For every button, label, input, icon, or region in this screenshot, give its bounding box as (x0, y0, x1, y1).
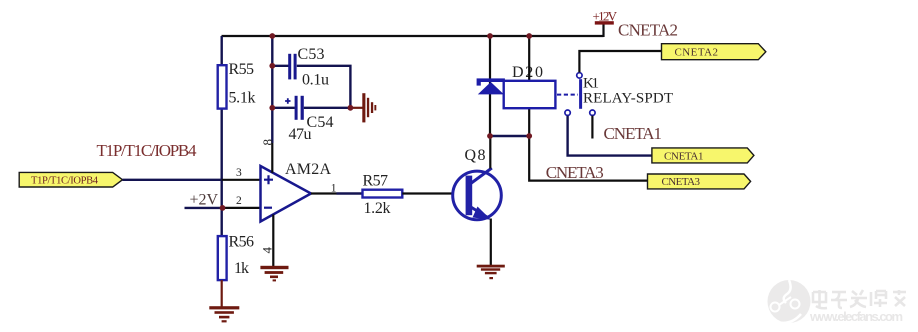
ground below R56 (209, 306, 239, 322)
svg-text:5.1k: 5.1k (229, 90, 256, 107)
wire: relay coil bottom lead (528, 108, 530, 136)
svg-text:C53: C53 (298, 46, 325, 63)
wire: throw2 stub (591, 116, 593, 139)
wire: pin 8 vertical (271, 108, 273, 143)
wire: output to R57 (337, 192, 363, 194)
wire: R57 to Q8 base (402, 192, 466, 194)
wire: R56 to ground (221, 280, 223, 306)
svg-text:0.1u: 0.1u (302, 72, 329, 89)
svg-text:R56: R56 (229, 234, 255, 251)
watermark text (hand-drawn glyph approximations) (813, 290, 906, 308)
power +12V bar (595, 21, 614, 24)
junction: +2V divider tap (220, 205, 226, 211)
junction: rail / D20 (487, 33, 493, 39)
transistor Q8 (453, 168, 502, 220)
wire: C53 left lead (272, 65, 289, 67)
port tag T1P/T1C/IOPB4 (19, 172, 122, 187)
wire: to CNETA3 tag (529, 136, 647, 181)
svg-text:T1P/T1C/IOPB4: T1P/T1C/IOPB4 (31, 175, 99, 186)
junction: C54 right / ground (348, 105, 354, 111)
relay K1 coil (504, 81, 556, 108)
svg-text:www.elecfans.com: www.elecfans.com (809, 309, 903, 324)
svg-text:8: 8 (260, 139, 275, 146)
resistor R55 (218, 65, 227, 108)
pin 1 output stub (311, 192, 337, 194)
svg-text:1: 1 (331, 182, 337, 194)
capacitor C54 (polarized, + mark) (285, 96, 304, 120)
junction: C53 left (269, 63, 275, 69)
junction: C54 left (269, 105, 275, 111)
svg-text:RELAY-SPDT: RELAY-SPDT (583, 91, 673, 107)
ground (sideways) at C53/C54 (351, 93, 376, 122)
wire: +12V riser stub (602, 23, 604, 37)
pin 8 stub (271, 143, 273, 173)
relay actuation dashed link (557, 94, 578, 96)
port tag CNETA2 (662, 44, 766, 60)
svg-text:1.2k: 1.2k (364, 200, 391, 217)
svg-text:1k: 1k (234, 260, 249, 277)
ground below Q8 (477, 265, 505, 280)
wire: D20 branch vertical (489, 36, 491, 136)
svg-text:CNETA1: CNETA1 (604, 124, 663, 143)
capacitor C53 (288, 54, 296, 80)
wire: common contact to CNETA2 (579, 51, 661, 72)
wire: divider vertical (R55/R56 column) (220, 36, 222, 237)
wire: C53/C54 branch vertical (271, 36, 273, 108)
svg-text:R57: R57 (363, 173, 389, 190)
svg-text:T1P/T1C/IOPB4: T1P/T1C/IOPB4 (97, 141, 198, 160)
watermark logo circle (768, 280, 811, 323)
ground at op-amp pin 4 (260, 266, 288, 282)
op-amp AM2A (261, 166, 312, 222)
junction: collector node left (487, 133, 493, 139)
svg-text:47u: 47u (289, 126, 312, 143)
svg-text:CNETA1: CNETA1 (664, 151, 704, 163)
relay common contact circle (577, 73, 582, 78)
port tag CNETA3 (648, 174, 751, 189)
junction: rail / C-branch (269, 33, 275, 39)
resistor R56 (218, 236, 227, 280)
wire: tag to op-amp pin 3 (123, 179, 222, 181)
resistor R57 (363, 190, 403, 198)
svg-text:Q8: Q8 (465, 147, 486, 164)
wire: bottom joining wire (collector node) (490, 135, 529, 137)
svg-text:+2V: +2V (190, 192, 219, 209)
wire: C54 left lead (272, 107, 295, 109)
svg-text:4: 4 (259, 247, 274, 254)
wire: +2V stub (185, 207, 223, 209)
svg-text:3: 3 (236, 167, 242, 179)
svg-text:CNETA2: CNETA2 (618, 20, 678, 39)
svg-text:K1: K1 (583, 76, 599, 92)
wire: Q8 collector up (489, 136, 491, 169)
port tag CNETA1 (652, 148, 754, 163)
wire: C53 right lead and loop to ground (297, 66, 351, 108)
svg-text:AM2A: AM2A (285, 161, 331, 178)
junction: collector node right (526, 133, 532, 139)
wire: throw1 to CNETA1 tag (568, 116, 652, 156)
pin 4 stub (272, 215, 274, 267)
svg-text:2: 2 (236, 195, 242, 207)
junction: rail / coil (526, 33, 532, 39)
wire: Q8 emitter down (490, 219, 492, 266)
svg-text:+12V: +12V (593, 9, 618, 24)
wire: +12V top rail (222, 35, 604, 37)
relay contact circle (throw 2) (590, 110, 595, 115)
wire: relay coil top lead (528, 36, 530, 81)
svg-text:D20: D20 (512, 64, 543, 81)
svg-text:CNETA3: CNETA3 (662, 176, 701, 188)
pin 3 stub (222, 179, 261, 181)
diode D20 (477, 78, 505, 94)
svg-text:R55: R55 (229, 61, 255, 78)
relay armature (579, 79, 582, 109)
relay contact circle (throw 1) (565, 110, 570, 115)
wire: C54 right lead (304, 107, 351, 109)
svg-text:CNETA3: CNETA3 (546, 163, 604, 182)
svg-text:CNETA2: CNETA2 (675, 47, 719, 59)
pin 2 stub (223, 207, 261, 209)
